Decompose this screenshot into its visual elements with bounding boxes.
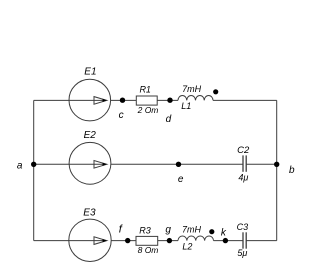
svg-text:L1: L1 — [181, 101, 191, 111]
wire top branch R1 to L1 — [157, 99, 178, 101]
wire right rail — [276, 100, 278, 240]
wire top branch right — [213, 99, 277, 101]
wire left rail — [33, 100, 35, 240]
node f — [125, 238, 130, 243]
source E2 — [69, 142, 111, 184]
node d — [167, 98, 172, 103]
svg-text:a: a — [17, 160, 23, 171]
node e — [176, 162, 181, 167]
svg-text:E3: E3 — [83, 207, 96, 218]
source E3 — [69, 219, 111, 261]
wire top branch middle — [111, 99, 137, 101]
inductor L2 — [178, 236, 214, 241]
svg-text:R3: R3 — [139, 226, 151, 236]
wire bottom branch E3 to R3 — [111, 240, 136, 242]
svg-text:e: e — [178, 174, 184, 185]
inductor L1 — [178, 96, 213, 101]
node a — [31, 162, 36, 167]
wire middle branch center — [111, 163, 243, 165]
resistor R1 — [136, 96, 157, 105]
svg-text:5μ: 5μ — [237, 248, 247, 258]
node g — [167, 238, 172, 243]
node c — [120, 98, 125, 103]
svg-text:c: c — [119, 110, 124, 121]
coupling dot L2 — [209, 229, 214, 234]
svg-text:4μ: 4μ — [238, 172, 248, 182]
svg-text:b: b — [289, 165, 295, 176]
arrow tip E1 — [103, 99, 107, 102]
wire top branch left — [34, 99, 69, 101]
svg-text:7mH: 7mH — [182, 84, 202, 94]
wire bottom branch R3 to L2 — [158, 240, 178, 242]
wire middle branch right — [247, 163, 277, 165]
arrow tip E3 — [103, 239, 107, 242]
capacitor C3 — [242, 232, 244, 248]
node k — [223, 238, 228, 243]
svg-text:8 Om: 8 Om — [138, 245, 159, 255]
arrow tip E2 — [103, 163, 107, 166]
svg-text:E2: E2 — [84, 130, 97, 141]
svg-text:C3: C3 — [237, 222, 249, 232]
svg-text:d: d — [166, 114, 172, 125]
capacitor C2 — [242, 155, 244, 171]
resistor R3 — [136, 236, 158, 245]
wire bottom branch left — [34, 240, 69, 242]
coupling dot L1 — [213, 89, 218, 94]
node b — [274, 162, 279, 167]
svg-text:C2: C2 — [237, 145, 250, 156]
wire middle branch left — [34, 163, 69, 165]
wire bottom branch L2 to C3 — [214, 240, 243, 242]
svg-text:7mH: 7mH — [182, 225, 202, 235]
svg-text:E1: E1 — [84, 67, 96, 78]
source E1 — [69, 79, 111, 121]
svg-text:2 Om: 2 Om — [137, 105, 159, 115]
wire bottom branch right — [247, 240, 277, 242]
svg-text:R1: R1 — [139, 84, 151, 94]
svg-text:L2: L2 — [182, 241, 192, 251]
svg-text:g: g — [165, 224, 171, 235]
